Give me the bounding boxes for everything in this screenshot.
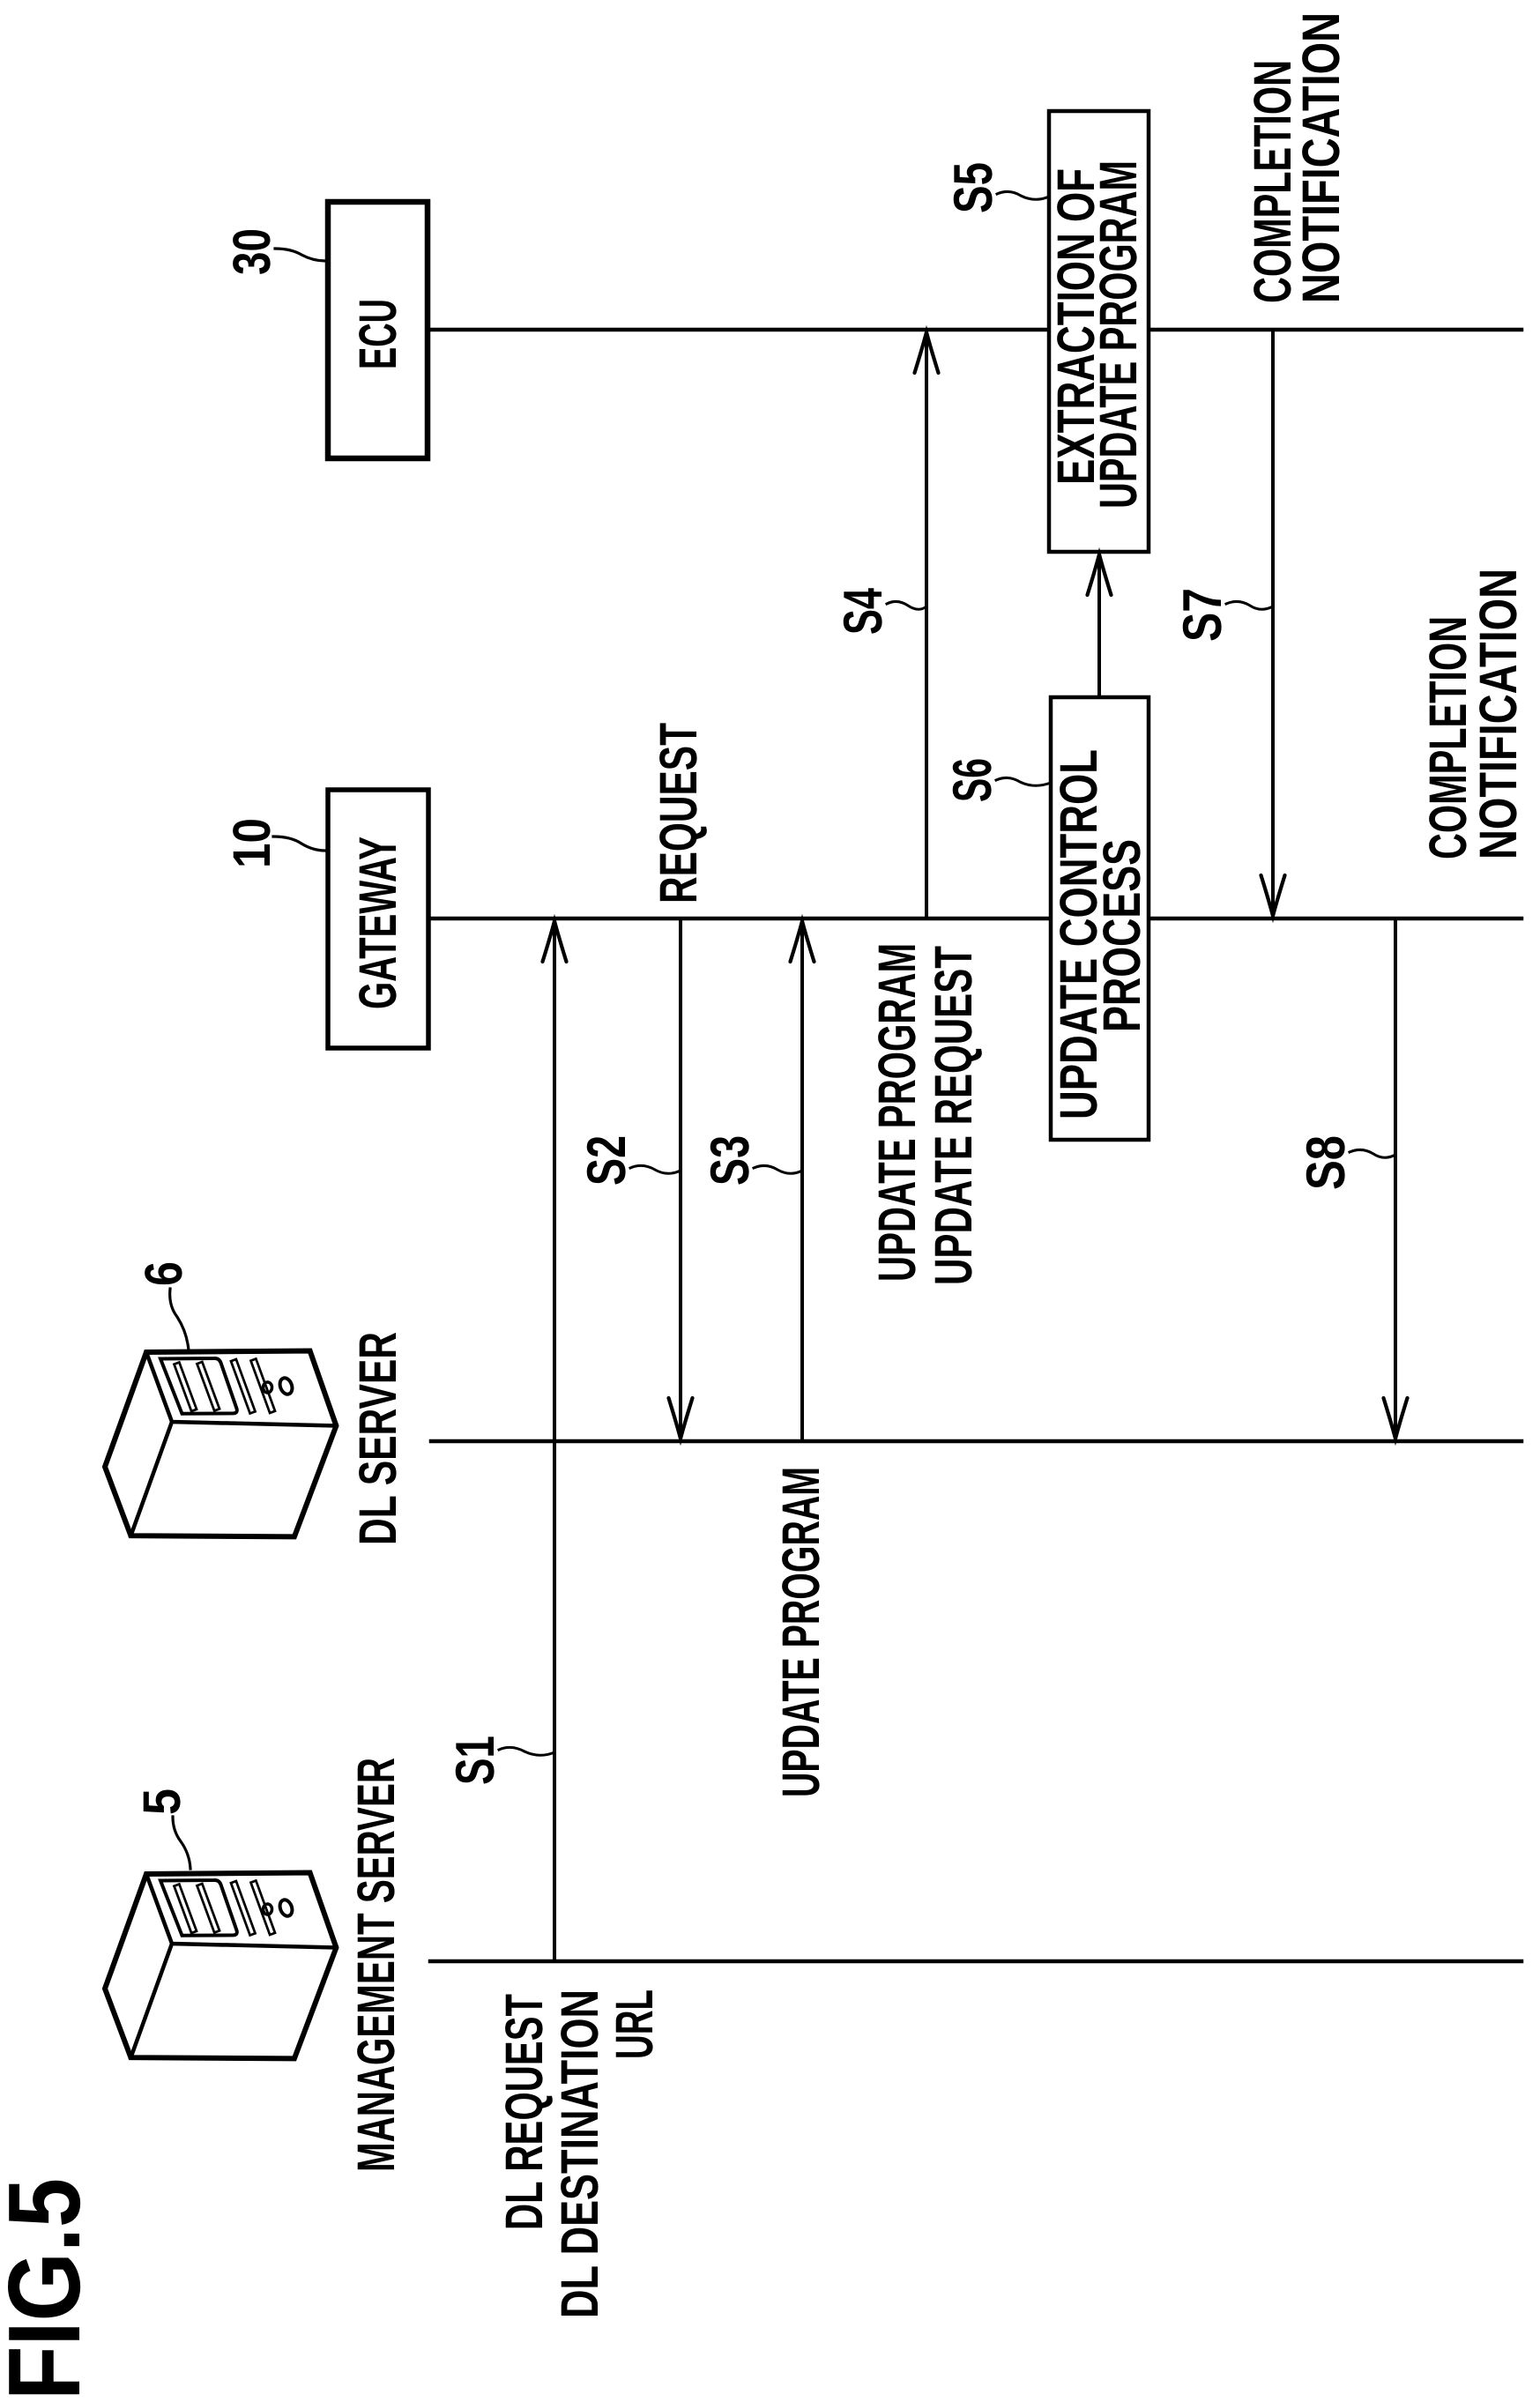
gateway lifeline — [431, 917, 1521, 921]
svg-text:FIG.5: FIG.5 — [0, 2178, 101, 2400]
S1 leader squiggle — [499, 1747, 554, 1755]
svg-text:REQUEST: REQUEST — [649, 723, 708, 904]
svg-text:ECU: ECU — [348, 299, 407, 369]
svg-text:10: 10 — [222, 818, 281, 868]
S6 leader squiggle — [996, 777, 1051, 785]
S3 leader squiggle — [754, 1165, 802, 1173]
DL server lifeline — [431, 1439, 1521, 1444]
svg-text:5: 5 — [132, 1788, 191, 1815]
svg-text:6: 6 — [134, 1261, 193, 1286]
arrow S2 gateway to DL server — [679, 918, 682, 1439]
svg-text:UPDATE PROGRAM: UPDATE PROGRAM — [1089, 160, 1148, 509]
process box S6 update control process — [1051, 697, 1149, 1140]
ECU lifeline — [430, 328, 1521, 332]
svg-text:S6: S6 — [942, 758, 1003, 802]
svg-text:NOTIFICATION: NOTIFICATION — [1291, 12, 1350, 303]
management server lifeline — [430, 1960, 1521, 1964]
leader line for 6 — [170, 1289, 189, 1350]
S8 leader squiggle — [1350, 1149, 1395, 1157]
svg-text:S1: S1 — [445, 1736, 506, 1785]
svg-text:S3: S3 — [700, 1135, 761, 1186]
S4 leader squiggle — [887, 601, 926, 609]
svg-text:DL REQUEST: DL REQUEST — [495, 1994, 554, 2230]
arrow S1 management server to gateway — [553, 921, 556, 1961]
arrow S8 gateway to DL server — [1394, 918, 1397, 1439]
S7 leader squiggle — [1226, 601, 1273, 609]
svg-text:PROCESS: PROCESS — [1092, 839, 1151, 1032]
svg-text:S7: S7 — [1172, 588, 1233, 642]
svg-text:S2: S2 — [577, 1135, 637, 1186]
gateway box 10 — [328, 790, 428, 1048]
svg-text:NOTIFICATION: NOTIFICATION — [1469, 569, 1528, 859]
svg-text:MANAGEMENT SERVER: MANAGEMENT SERVER — [346, 1758, 405, 2172]
arrow S7 ECU to gateway — [1271, 330, 1275, 916]
leader line for 5 — [173, 1817, 190, 1869]
svg-text:S8: S8 — [1296, 1135, 1357, 1190]
svg-text:S5: S5 — [943, 162, 1004, 213]
svg-text:DL SERVER: DL SERVER — [348, 1332, 407, 1545]
svg-text:30: 30 — [222, 228, 281, 275]
svg-text:UPDATE REQUEST: UPDATE REQUEST — [924, 946, 983, 1285]
management server icon 5 — [105, 1873, 336, 2059]
svg-text:UPDATE PROGRAM: UPDATE PROGRAM — [771, 1467, 830, 1797]
ECU box 30 — [328, 202, 428, 458]
arrow S4 gateway to ECU — [925, 332, 928, 918]
svg-text:URL: URL — [605, 1989, 664, 2059]
arrow S6 box to S5 box — [1097, 554, 1101, 697]
svg-text:DL DESTINATION: DL DESTINATION — [550, 1989, 609, 2318]
process box S5 extraction of update program — [1049, 111, 1149, 552]
svg-text:UPDATE PROGRAM: UPDATE PROGRAM — [867, 943, 926, 1282]
S5 leader squiggle — [997, 191, 1049, 199]
DL server icon 6 — [105, 1351, 336, 1537]
arrow S3 DL server to gateway — [800, 921, 804, 1441]
svg-text:S4: S4 — [833, 588, 894, 635]
leader line for 30 — [275, 249, 325, 261]
svg-text:GATEWAY: GATEWAY — [348, 837, 407, 1009]
S2 leader squiggle — [630, 1165, 681, 1173]
leader line for 10 — [273, 837, 325, 851]
